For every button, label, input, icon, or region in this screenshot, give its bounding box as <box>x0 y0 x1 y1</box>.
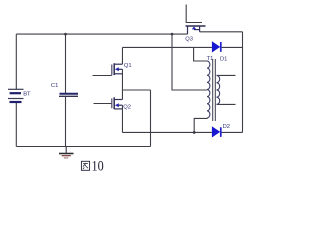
wire C1 bottom lead <box>65 97 67 147</box>
wire right rail <box>242 32 244 133</box>
caption 图10 <box>81 158 103 174</box>
diode D1 <box>212 41 220 52</box>
svg-text:Q3: Q3 <box>185 37 193 43</box>
wire D1 cathode to right rail <box>222 46 243 48</box>
svg-text:C1: C1 <box>51 83 58 89</box>
label C1 <box>51 83 58 89</box>
wire D2 cathode to right rail <box>222 131 243 133</box>
wire secondary bottom terminal <box>217 103 236 105</box>
wire vertical x150 to bottom rail <box>150 90 152 147</box>
wire Q2 source down to D2 line <box>121 105 123 132</box>
transformer T1 primary winding <box>207 61 210 118</box>
wire secondary top terminal <box>217 74 236 76</box>
wire Q2 gate lead <box>94 103 112 105</box>
node junction C1 top <box>64 33 67 36</box>
capacitor C1 <box>60 93 79 95</box>
label T1 <box>207 56 214 62</box>
wire Q1 drain vertical <box>121 47 123 64</box>
ground <box>65 147 67 153</box>
svg-text:T1: T1 <box>207 56 214 62</box>
svg-text:Q1: Q1 <box>124 63 132 69</box>
svg-text:D2: D2 <box>223 124 230 130</box>
wire bottom rail <box>16 146 150 148</box>
node junction center-tap rail <box>171 33 174 36</box>
transistor Q1 <box>112 63 123 75</box>
label Q2 <box>123 104 131 110</box>
label Q3 <box>185 37 193 43</box>
wire switch-node branch <box>122 89 150 91</box>
wire primary top link <box>194 47 208 61</box>
svg-text:D1: D1 <box>220 57 227 63</box>
diode D2 <box>212 126 220 137</box>
wire battery bottom lead <box>15 103 17 147</box>
transformer T1 secondary winding <box>217 75 220 104</box>
wire D1 anode line <box>122 46 211 48</box>
svg-text:Q2: Q2 <box>123 104 131 110</box>
wire C1 top lead <box>65 34 67 93</box>
wire primary bottom link <box>194 118 207 132</box>
battery BT <box>8 88 24 90</box>
wire Q1 source to Q2 drain <box>121 69 123 99</box>
label Q1 <box>124 63 132 69</box>
wire left rail upper (battery top lead) <box>15 34 17 89</box>
label D1 <box>220 57 227 63</box>
wire Q3 gate lead <box>186 5 202 23</box>
wire Q3 source to right rail <box>200 31 243 33</box>
wire Q1 gate lead <box>93 75 112 77</box>
node junction primary bottom / D2 line <box>193 131 196 134</box>
wire battery+ to primary center tap vertical <box>172 34 207 90</box>
svg-text:10: 10 <box>92 158 104 174</box>
transistor Q3 <box>186 26 206 34</box>
wire top rail <box>16 33 187 35</box>
label BT <box>23 91 31 97</box>
transformer T1 core <box>212 59 214 121</box>
label D2 <box>223 124 230 130</box>
transistor Q2 <box>112 97 123 109</box>
svg-text:BT: BT <box>23 91 31 97</box>
wire D2 anode line <box>122 131 211 133</box>
